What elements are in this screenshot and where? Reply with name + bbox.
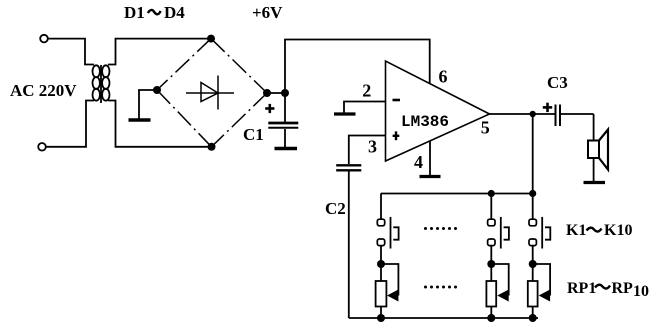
svg-text:C1: C1 [243,125,264,144]
svg-text:+6V: +6V [252,3,283,22]
svg-text:K1: K1 [566,222,586,239]
svg-text:LM386: LM386 [401,113,449,131]
svg-text:RP1: RP1 [567,280,596,297]
svg-text:6: 6 [439,67,448,87]
svg-text:3: 3 [368,137,377,157]
svg-text:C3: C3 [547,73,568,92]
svg-text:10: 10 [633,283,649,300]
svg-text:AC 220V: AC 220V [10,81,77,100]
svg-text:C2: C2 [325,199,346,218]
svg-text:5: 5 [481,118,490,138]
svg-text:D1: D1 [124,3,145,22]
svg-text:4: 4 [414,152,423,172]
svg-text:2: 2 [362,81,371,101]
svg-text:RP: RP [612,280,634,297]
svg-text:K10: K10 [604,222,632,239]
svg-text:D4: D4 [164,3,185,22]
